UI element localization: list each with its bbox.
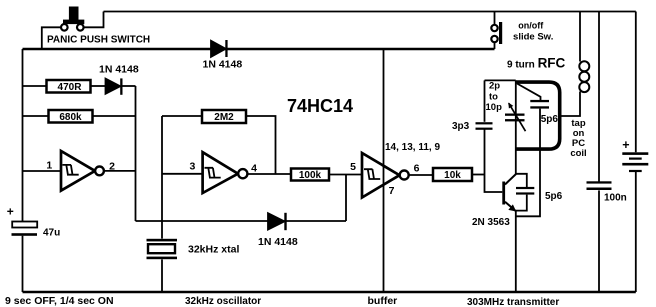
capacitor C4 5p6 (collector-emitter) bbox=[516, 174, 535, 211]
svg-text:74HC14: 74HC14 bbox=[287, 96, 353, 116]
capacitor C2 3p3 bbox=[476, 122, 493, 130]
svg-text:10k: 10k bbox=[444, 170, 461, 181]
battery B1 bbox=[622, 152, 648, 172]
wire: 470R to diode D1 bbox=[91, 85, 107, 87]
op-amp U1b Schmitt inverter (pins 3-4) bbox=[203, 152, 248, 193]
svg-text:PANIC PUSH SWITCH: PANIC PUSH SWITCH bbox=[47, 35, 150, 46]
crystal X1 32kHz bbox=[147, 221, 178, 292]
wire: left vertical (supply to 47u top) bbox=[22, 49, 24, 222]
resistor 10k bbox=[433, 168, 472, 181]
svg-text:9 sec OFF, 1/4 sec ON: 9 sec OFF, 1/4 sec ON bbox=[5, 295, 114, 307]
resistor 680k bbox=[49, 110, 93, 123]
svg-text:32kHz oscillator: 32kHz oscillator bbox=[185, 296, 261, 307]
wire: left vertical (47u bottom to 0V rail) bbox=[22, 236, 24, 292]
wire: U1c output to 10k bbox=[409, 174, 433, 176]
wire: 3p3 branch vertical top bbox=[484, 80, 486, 121]
wire: emitter to 0V rail bbox=[515, 211, 517, 292]
svg-text:100n: 100n bbox=[604, 193, 627, 204]
capacitor C1 47u electrolytic bbox=[12, 222, 38, 236]
wire: 100k right to U1c input (pin5 wire) bbox=[329, 174, 362, 176]
wire: transmitter top feed bbox=[485, 79, 516, 81]
svg-text:+: + bbox=[622, 138, 629, 152]
wire: battery negative drop to bottom rail bbox=[635, 172, 637, 292]
diode D3 1N 4148 feedback bbox=[268, 213, 287, 230]
resistor 470R bbox=[47, 80, 91, 93]
wire: U1b output to 100k bbox=[248, 173, 292, 175]
svg-text:2N 3563: 2N 3563 bbox=[472, 217, 510, 228]
svg-text:2p: 2p bbox=[489, 80, 500, 91]
svg-text:470R: 470R bbox=[58, 82, 83, 93]
svg-text:3p3: 3p3 bbox=[452, 121, 470, 132]
op-amp U1a Schmitt inverter (pins 1-2) bbox=[61, 151, 104, 191]
wire: push switch right leg up to top rail bbox=[84, 12, 104, 28]
wire: 680k right to node bbox=[93, 115, 136, 117]
wire: node vertical (pin2 feedback node) bbox=[135, 86, 137, 221]
svg-text:14, 13, 11, 9: 14, 13, 11, 9 bbox=[385, 142, 440, 153]
svg-text:303MHz transmitter: 303MHz transmitter bbox=[467, 297, 559, 307]
wire: push switch left leg bbox=[42, 27, 61, 49]
capacitor C5 100n bbox=[587, 12, 612, 293]
wire: 10k right to base node bbox=[472, 174, 485, 176]
resistor 2M2 bbox=[202, 110, 246, 123]
wire: feedback branch vertical bbox=[345, 175, 347, 222]
wire: battery positive drop (right edge) bbox=[635, 12, 637, 153]
diode D2 1N 4148 on supply rail bbox=[211, 40, 228, 57]
svg-text:7: 7 bbox=[389, 185, 395, 197]
svg-text:10p: 10p bbox=[486, 102, 503, 113]
wire: inverter U1b input stub bbox=[162, 173, 203, 175]
capacitor C3 5p6 (tank) bbox=[516, 84, 549, 217]
svg-text:47u: 47u bbox=[43, 228, 60, 239]
wire: top +V rail bbox=[104, 11, 636, 13]
slide switch S2 on/off bbox=[491, 12, 502, 50]
wire: oscillator node line (xtal line) bbox=[136, 220, 347, 222]
svg-text:slide Sw.: slide Sw. bbox=[513, 31, 553, 42]
svg-text:32kHz xtal: 32kHz xtal bbox=[188, 243, 239, 255]
svg-text:5p6: 5p6 bbox=[545, 191, 563, 202]
svg-text:680k: 680k bbox=[59, 112, 82, 123]
inductor L2 9 turn RFC bbox=[562, 12, 590, 117]
wire: inverter U1b input vertical bbox=[161, 116, 163, 221]
wire: inverter U1a output to node bbox=[104, 170, 136, 172]
svg-text:2: 2 bbox=[109, 160, 115, 172]
wire: inverter U1a input bbox=[23, 170, 62, 172]
svg-text:5p6: 5p6 bbox=[541, 114, 559, 125]
push-button switch: PANIC PUSH SWITCH bbox=[61, 7, 84, 31]
wire: bottom 0V rail bbox=[23, 291, 636, 293]
op-amp U1c Schmitt inverter (pins 5-6) bbox=[362, 153, 409, 198]
wire: collector vertical through tank bbox=[515, 80, 517, 174]
capacitor VC1 2p-10p trimmer bbox=[505, 103, 526, 132]
wire: diode D1 cathode to node bbox=[123, 85, 136, 87]
transistor Q1 2N 3563 bbox=[502, 174, 516, 212]
wire: 680k row left bbox=[23, 115, 49, 117]
svg-text:coil: coil bbox=[570, 148, 586, 159]
wire: 2M2 right and down to output bbox=[246, 116, 276, 174]
svg-text:1N 4148: 1N 4148 bbox=[203, 58, 243, 70]
coil L1 PC board coil (thick loop) bbox=[516, 82, 560, 149]
wire: 3p3 bottom to base bbox=[485, 129, 503, 192]
wire: 470R row left bbox=[23, 85, 47, 87]
wire: section divider vertical (IC supply) bbox=[383, 49, 385, 293]
resistor 100k bbox=[291, 169, 329, 181]
svg-text:4: 4 bbox=[251, 162, 257, 174]
svg-text:5: 5 bbox=[350, 161, 356, 173]
svg-text:+: + bbox=[7, 205, 14, 219]
svg-text:1N 4148: 1N 4148 bbox=[258, 236, 298, 248]
diode D1 1N 4148 bbox=[106, 78, 123, 94]
svg-text:6: 6 bbox=[414, 162, 420, 174]
svg-text:100k: 100k bbox=[299, 170, 322, 181]
svg-text:on/off: on/off bbox=[518, 21, 544, 31]
svg-text:2M2: 2M2 bbox=[214, 112, 234, 123]
svg-text:3: 3 bbox=[189, 160, 195, 172]
wire: 2M2 row left bbox=[162, 115, 202, 117]
svg-text:1N 4148: 1N 4148 bbox=[99, 63, 139, 75]
wire: switched supply rail bbox=[23, 48, 495, 50]
svg-text:1: 1 bbox=[46, 159, 52, 171]
svg-text:buffer: buffer bbox=[368, 295, 398, 307]
